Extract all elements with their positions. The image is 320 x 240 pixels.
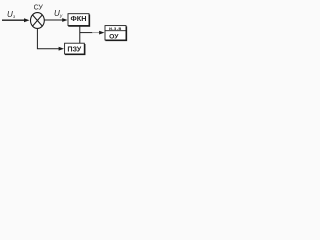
svg-text:и.з.в: и.з.в <box>109 27 122 32</box>
svg-text:ОУ: ОУ <box>109 33 119 40</box>
svg-text:ФКН: ФКН <box>71 14 87 23</box>
svg-text:ПЗУ: ПЗУ <box>67 45 81 54</box>
svg-text:СУ: СУ <box>34 4 44 11</box>
